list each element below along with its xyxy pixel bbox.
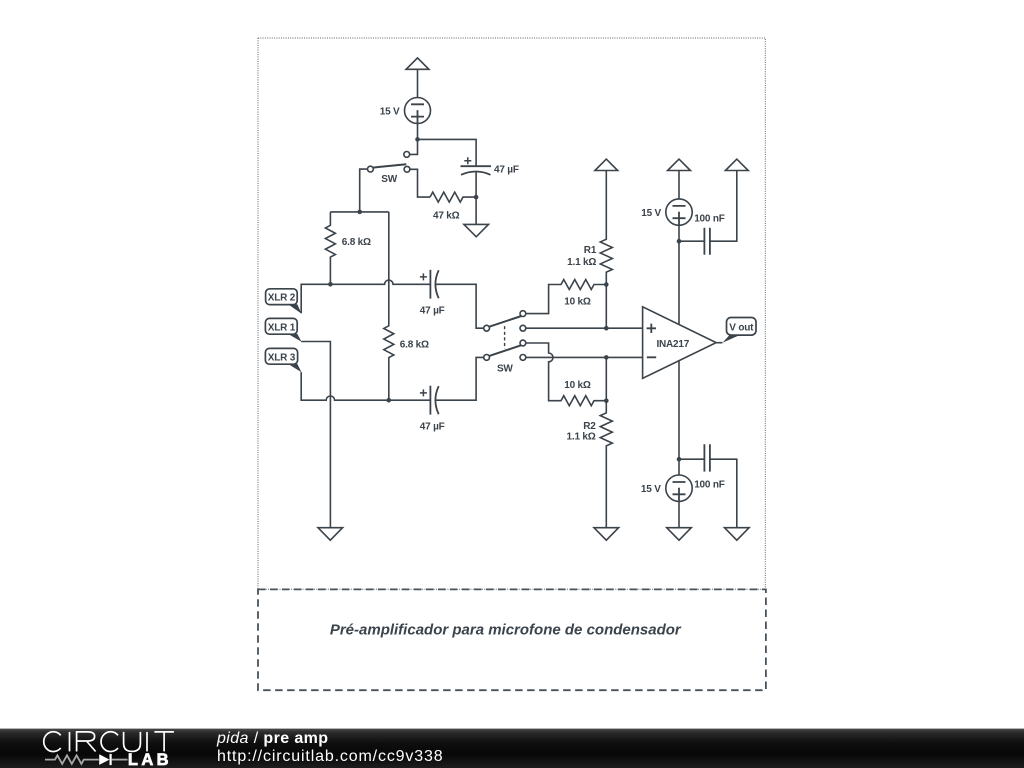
- svg-text:XLR 2: XLR 2: [268, 293, 296, 304]
- svg-text:1.1 kΩ: 1.1 kΩ: [567, 257, 596, 268]
- svg-text:15 V: 15 V: [641, 208, 661, 219]
- svg-text:47 µF: 47 µF: [420, 421, 445, 432]
- svg-text:15 V: 15 V: [380, 106, 400, 117]
- svg-text:1.1 kΩ: 1.1 kΩ: [567, 432, 596, 443]
- svg-text:6.8 kΩ: 6.8 kΩ: [400, 340, 429, 351]
- svg-text:10 kΩ: 10 kΩ: [564, 297, 591, 308]
- svg-text:47 µF: 47 µF: [420, 306, 445, 317]
- svg-text:R1: R1: [584, 245, 597, 256]
- svg-text:Pré-amplificador para microfon: Pré-amplificador para microfone de conde…: [330, 622, 682, 639]
- svg-text:XLR 1: XLR 1: [268, 322, 296, 333]
- svg-text:R2: R2: [583, 421, 596, 432]
- svg-text:XLR 3: XLR 3: [268, 352, 296, 363]
- svg-text:100 nF: 100 nF: [694, 479, 725, 490]
- svg-text:http://circuitlab.com/cc9v338: http://circuitlab.com/cc9v338: [217, 748, 444, 765]
- svg-text:100 nF: 100 nF: [694, 214, 725, 225]
- svg-text:SW: SW: [497, 363, 513, 374]
- svg-text:6.8 kΩ: 6.8 kΩ: [342, 237, 371, 248]
- svg-text:SW: SW: [381, 174, 397, 185]
- svg-text:15 V: 15 V: [641, 484, 661, 495]
- svg-text:10 kΩ: 10 kΩ: [564, 380, 591, 391]
- svg-text:V out: V out: [729, 323, 754, 334]
- svg-text:47 kΩ: 47 kΩ: [433, 210, 460, 221]
- svg-text:LAB: LAB: [128, 751, 172, 768]
- svg-text:47 µF: 47 µF: [494, 164, 519, 175]
- svg-text:pida / pre amp: pida / pre amp: [216, 730, 328, 747]
- svg-text:INA217: INA217: [656, 339, 689, 350]
